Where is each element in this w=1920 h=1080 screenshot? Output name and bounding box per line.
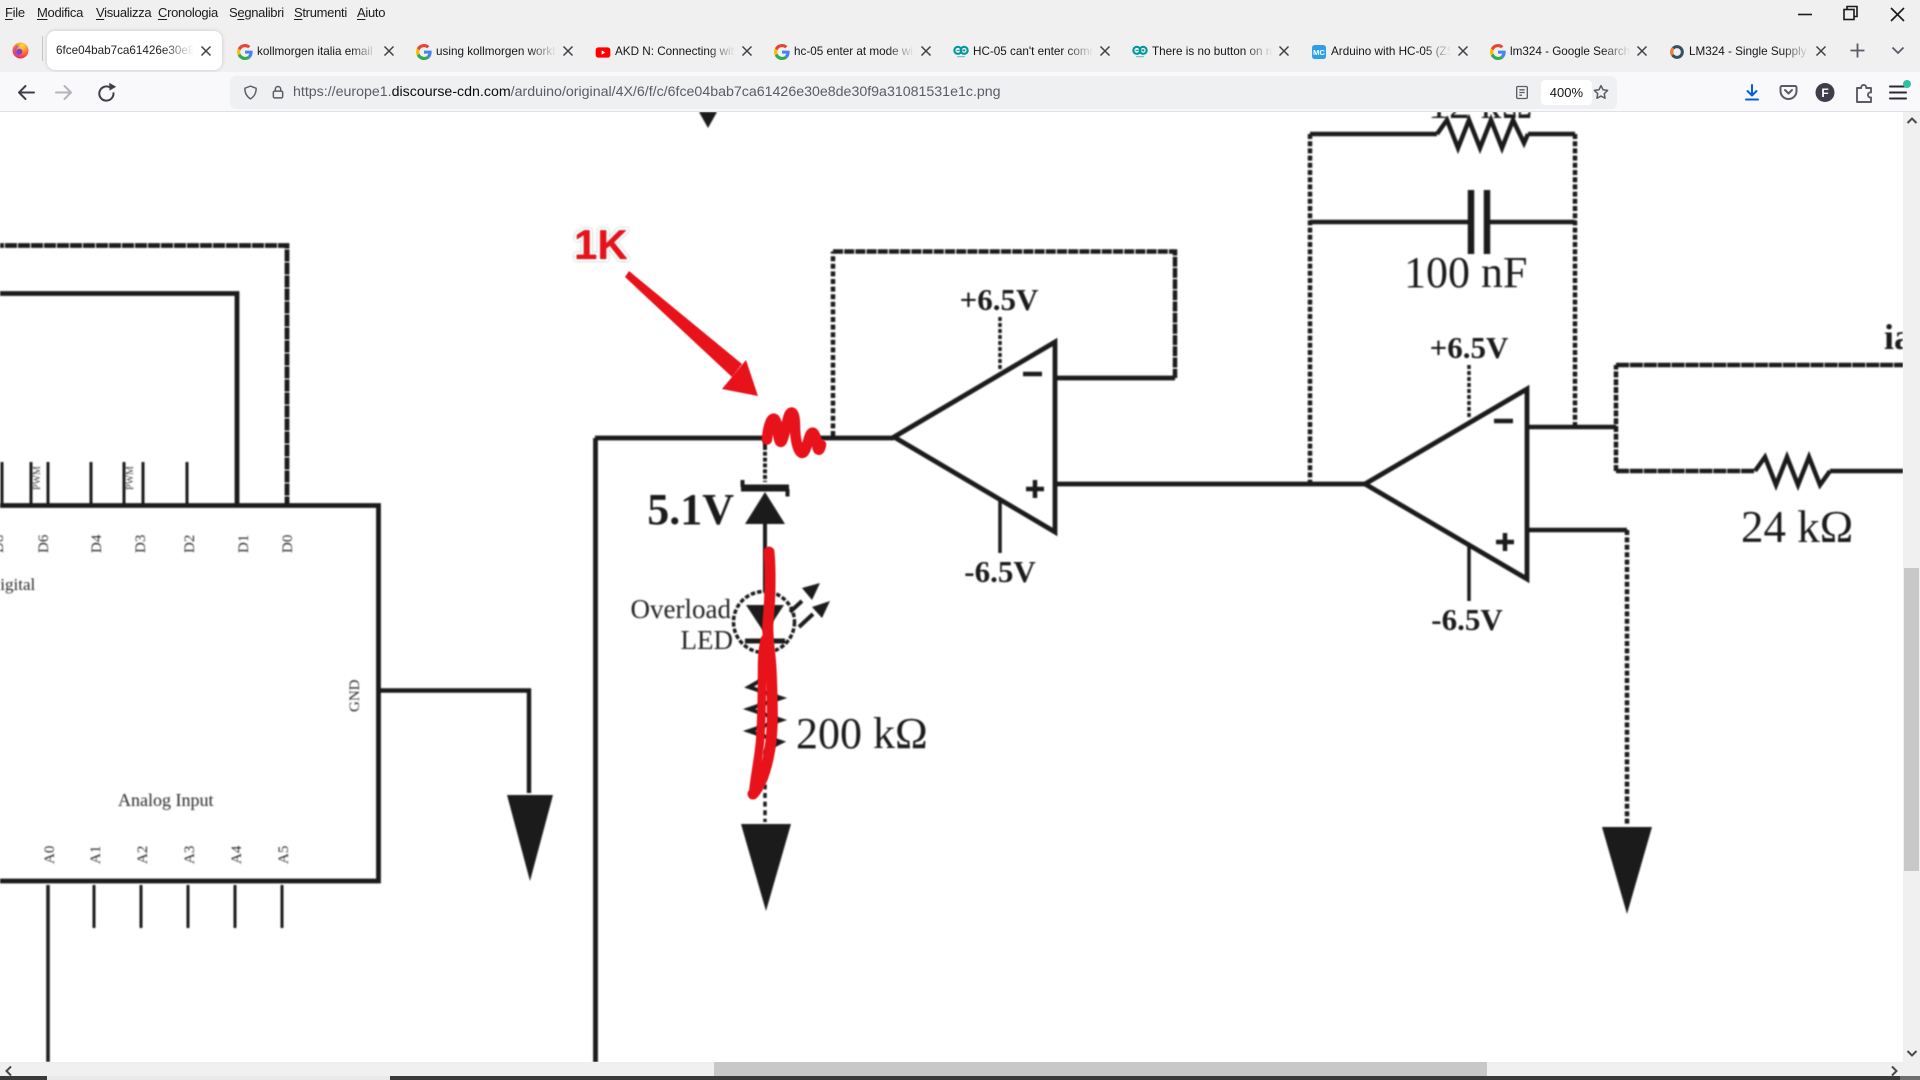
window controls <box>1780 0 1920 29</box>
PWM pin labels <box>32 466 136 490</box>
op-amp U1 <box>894 342 1055 532</box>
lock icon <box>270 84 286 101</box>
back / forward / reload <box>10 76 120 109</box>
ground (U2 noninverting input) <box>1602 827 1652 914</box>
account avatar <box>1816 83 1835 102</box>
annotation arrow to 1K resistor <box>625 271 758 396</box>
puzzle piece <box>1857 85 1871 102</box>
wire zener to node <box>763 446 767 482</box>
wire U2 noninverting input to ground <box>1527 528 1627 533</box>
U1 plus pin <box>1026 480 1044 498</box>
op-amp U2 <box>1365 389 1527 579</box>
wire feedback left edge U2 <box>1308 134 1313 484</box>
pin labels A0-A5 <box>42 845 292 864</box>
shield icon <box>242 84 259 101</box>
wire U1 noninverting input to U2 output <box>1055 482 1365 487</box>
LED overload indicator <box>734 592 795 653</box>
hamburger <box>1890 87 1906 99</box>
LED emission arrows <box>790 583 830 627</box>
wire V+ supply U2 <box>1467 365 1471 417</box>
svg-text:1K: 1K <box>574 221 628 268</box>
digital pin stubs <box>2 462 187 505</box>
node junction at 1K <box>763 438 767 446</box>
wire inner corner to D1 <box>0 294 237 506</box>
wire U2 inverting input right <box>1527 425 1616 430</box>
analog pin stubs <box>94 885 282 928</box>
wire outer corner to D0 <box>0 246 287 506</box>
feedback wire box U1 <box>831 252 836 437</box>
pocket <box>1781 86 1797 99</box>
wire V- supply U2 <box>1467 546 1471 601</box>
pin labels D6-D0 <box>0 534 296 553</box>
zener diode D1 5.1V <box>741 480 789 592</box>
wire feedback top U2 <box>1310 132 1575 137</box>
wire V+ supply U1 <box>998 317 1002 371</box>
wire A0 down <box>46 885 50 1062</box>
wire box to 24k <box>1614 365 1619 471</box>
resistor R 12k <box>1437 120 1528 148</box>
download icon (blue) <box>1746 85 1758 100</box>
wire R 200k to ground <box>763 750 767 822</box>
star icon <box>1592 83 1610 101</box>
wire op-amp U1 output left <box>595 436 894 441</box>
capacitor C1 100nF <box>1310 190 1575 254</box>
resistor R 200k <box>749 678 781 750</box>
ground arrow tip from above (partial) <box>699 112 717 128</box>
wire down left column <box>593 438 598 1062</box>
annotation resistor squiggle (1K) <box>767 412 821 452</box>
wire GND to ground <box>378 691 529 794</box>
svg-text:F: F <box>1821 86 1828 100</box>
annotation stroke over LED and 200k <box>753 552 772 794</box>
wire LED to R 200k <box>763 652 767 678</box>
ground (Arduino GND) <box>507 795 553 881</box>
U2 plus pin <box>1496 533 1514 551</box>
reader icon <box>1514 84 1530 101</box>
ground (below 200k) <box>741 824 791 911</box>
wire to R 24k <box>1616 469 1755 474</box>
U1 minus pin <box>1023 372 1042 377</box>
wire U1 inverting input <box>1055 376 1175 381</box>
label Overload LED <box>631 594 733 655</box>
resistor R 24k <box>1755 457 1830 485</box>
svg-text:MC: MC <box>1313 48 1325 57</box>
right toolbar icons <box>1735 76 1920 109</box>
wire R 24k right <box>1830 469 1903 474</box>
wire V- supply U1 <box>998 500 1002 553</box>
wire feedback right edge U2 <box>1573 134 1578 427</box>
Arduino board outline (big box) <box>0 506 379 882</box>
U2 minus pin <box>1494 419 1513 424</box>
